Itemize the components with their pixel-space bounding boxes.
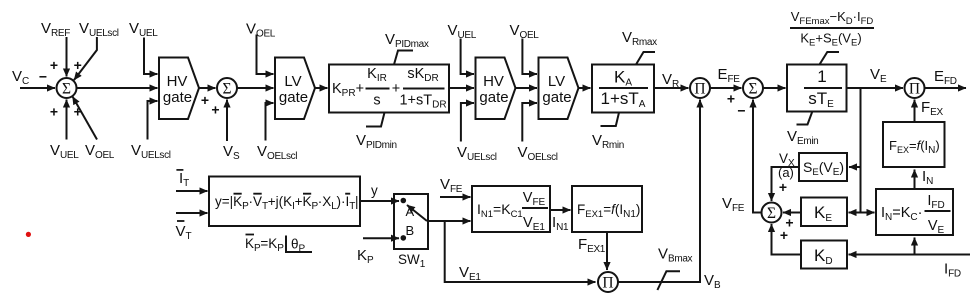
- svg-text:VUEL: VUEL: [448, 22, 477, 41]
- label V_OELscl below LV gate 1: [257, 143, 297, 162]
- wire LV gate 2 to KA block: [579, 87, 591, 89]
- label V_Rmin: [592, 132, 624, 151]
- FEX block: [883, 122, 945, 167]
- wire KE to S3: [783, 212, 801, 214]
- label V_OELscl below LV gate 2: [518, 144, 558, 163]
- label V_X: [779, 151, 795, 169]
- limit indicator V_Bmax slash: [657, 271, 680, 290]
- label V_UEL bottom: [50, 142, 79, 161]
- label V_UEL above HV gate 2: [448, 22, 477, 41]
- wire V_UEL to HV gate 2 top: [461, 39, 474, 75]
- wire HV gate 2 to LV gate 2: [516, 87, 538, 89]
- svg-text:Π: Π: [602, 275, 613, 292]
- wire V_OELscl to LV gate 2 bottom: [522, 103, 537, 142]
- label E_FD: [934, 68, 957, 87]
- svg-text:SW1: SW1: [398, 252, 426, 270]
- svg-text:VUEL: VUEL: [50, 142, 79, 161]
- switch SW1: [394, 194, 428, 249]
- sign plus VOEL: [74, 104, 82, 120]
- wire S4 to TE block: [763, 87, 786, 89]
- svg-text:VOELscl: VOELscl: [257, 143, 297, 162]
- limit indicator PID max: [394, 51, 413, 65]
- PID block: [329, 65, 449, 113]
- summing junction S4: [743, 78, 763, 98]
- svg-text:B: B: [406, 223, 415, 238]
- wire I_FD input: [849, 254, 971, 256]
- wire FEX block to P2: [914, 100, 916, 123]
- wire S2 to LV gate 1: [237, 87, 274, 89]
- svg-text:+: +: [201, 92, 209, 108]
- sign minus VFE: [737, 103, 745, 119]
- label V_T bar: [176, 221, 192, 242]
- label I_T bar: [176, 170, 189, 189]
- svg-text:HV: HV: [167, 73, 188, 90]
- label upper limit fraction of TE block: [790, 9, 874, 49]
- sign plus VREF: [50, 57, 58, 73]
- wire V_OEL to LV gate 2 top: [522, 39, 537, 75]
- wire KD to S3: [772, 224, 802, 255]
- sign plus KE: [785, 215, 793, 231]
- label F_EX: [921, 99, 943, 118]
- wire V_UEL to HV gate 1 top: [144, 38, 158, 75]
- label V_FE input: [440, 176, 463, 195]
- wire SE to S3: [772, 167, 800, 201]
- LV gate 1: [275, 58, 315, 120]
- limit indicator TE min: [797, 112, 813, 125]
- svg-text:FEX: FEX: [921, 99, 943, 118]
- svg-text:gate: gate: [479, 89, 508, 106]
- svg-text:gate: gate: [542, 89, 571, 106]
- summing junction S3: [762, 203, 782, 223]
- wire V_E1 to P3: [445, 221, 596, 282]
- IN block: [876, 189, 953, 236]
- label V_B: [704, 272, 721, 291]
- svg-text:VT: VT: [176, 223, 192, 242]
- sign plus VUELscl: [74, 57, 82, 73]
- svg-text:(a): (a): [778, 165, 794, 180]
- wire TE to P2: [847, 87, 904, 89]
- sign plus VX: [779, 179, 787, 195]
- label I_N1: [552, 214, 569, 233]
- svg-text:VE1: VE1: [459, 264, 481, 283]
- svg-text:VBmax: VBmax: [658, 246, 693, 265]
- red dot mark: [26, 232, 31, 237]
- wire V_FE to IN1 block: [440, 196, 471, 198]
- svg-text:IT: IT: [179, 170, 189, 189]
- summing junction S2: [217, 78, 237, 98]
- svg-text:VUELscl: VUELscl: [457, 144, 497, 163]
- svg-text:+: +: [74, 57, 82, 73]
- label y: [371, 183, 378, 198]
- wire V_UELscl to HV gate 2 bottom: [461, 103, 474, 142]
- label V_Emin: [787, 128, 818, 147]
- label V_FE feedback: [722, 195, 745, 214]
- svg-text:Σ: Σ: [62, 81, 71, 98]
- wire S1 to HV gate 1: [77, 87, 158, 89]
- svg-text:KP: KP: [357, 247, 374, 266]
- sign plus KD: [780, 227, 788, 243]
- label I_FD: [944, 261, 961, 280]
- label V_UEL above HV gate 1: [129, 20, 158, 39]
- label V_S: [223, 143, 240, 162]
- Y rectifier block: [209, 177, 360, 227]
- svg-text:LV: LV: [548, 73, 565, 90]
- svg-text:−: −: [737, 103, 745, 119]
- multiplier P2: [905, 78, 925, 98]
- svg-text:EFE: EFE: [718, 66, 741, 85]
- svg-text:−: −: [39, 69, 47, 85]
- svg-text:+: +: [50, 104, 58, 120]
- wire V_E to IN block: [861, 212, 875, 214]
- svg-text:VFE: VFE: [722, 195, 745, 214]
- svg-text:VOEL: VOEL: [510, 22, 540, 41]
- switch arm SW1: [407, 205, 427, 221]
- svg-text:IN: IN: [922, 168, 933, 187]
- svg-text:+: +: [74, 104, 82, 120]
- label V_PIDmax: [385, 31, 429, 50]
- label V_UELscl top: [79, 20, 119, 39]
- wire P2 to E_FD output: [925, 87, 967, 89]
- svg-text:VPIDmax: VPIDmax: [385, 31, 429, 50]
- label F_EX1: [578, 236, 606, 255]
- wire I_FD to IN block: [914, 238, 916, 255]
- limit indicator KA min: [601, 113, 620, 127]
- svg-text:IFD: IFD: [944, 261, 961, 280]
- KD block: [801, 241, 847, 269]
- wire I_T input: [176, 190, 208, 192]
- wire V_UELscl to HV gate 1 bottom: [148, 101, 158, 140]
- wire IN block to FEX block: [914, 170, 916, 190]
- KA block: [592, 65, 654, 113]
- svg-text:+: +: [211, 102, 219, 118]
- label V_PIDmin: [356, 132, 397, 151]
- wire IN1 to FEX1: [550, 209, 571, 211]
- svg-text:VRmin: VRmin: [592, 132, 624, 151]
- multiplier P3: [598, 272, 618, 292]
- wire HV gate 1 to S2: [199, 87, 216, 89]
- limit indicator TE max: [820, 52, 840, 65]
- wire P1 to S4: [710, 87, 742, 89]
- svg-text:Π: Π: [694, 81, 705, 98]
- FEX1 block: [572, 186, 642, 232]
- svg-text:gate: gate: [279, 89, 308, 106]
- svg-text:VEmin: VEmin: [787, 128, 818, 147]
- LV gate 2: [539, 58, 579, 120]
- KE block: [801, 198, 847, 227]
- label I_N: [922, 168, 933, 187]
- svg-text:VR: VR: [662, 71, 679, 90]
- svg-text:+: +: [780, 227, 788, 243]
- label KP phasor equation: [245, 235, 312, 255]
- limit indicator PID min: [366, 113, 385, 127]
- svg-text:gate: gate: [163, 89, 192, 106]
- wire V_OEL to LV gate 1 top: [257, 35, 274, 75]
- svg-text:VOEL: VOEL: [85, 142, 115, 161]
- svg-text:VFEmax−KD·IFD: VFEmax−KD·IFD: [791, 9, 874, 27]
- wire y output to SW1: [360, 200, 399, 202]
- wire V_UELscl diagonal input: [74, 37, 97, 80]
- svg-text:VREF: VREF: [41, 20, 70, 39]
- SE block: [799, 153, 847, 181]
- sign plus HV1 out: [201, 92, 209, 108]
- svg-text:VOELscl: VOELscl: [518, 144, 558, 163]
- wire S3 to S4 feedback V_FE: [753, 100, 762, 213]
- svg-text:LV: LV: [284, 73, 301, 90]
- label SW1: [398, 252, 426, 270]
- wire FEX1 to P3: [606, 232, 608, 270]
- summing junction S1: [57, 78, 77, 98]
- svg-text:VPIDmin: VPIDmin: [356, 132, 397, 151]
- svg-text:IN1: IN1: [552, 214, 569, 233]
- wire K_P to SW1: [363, 237, 399, 239]
- limit indicator KA max: [636, 52, 655, 65]
- wire KA to P1: [654, 87, 689, 89]
- sign plus EFE: [727, 91, 735, 107]
- svg-text:HV: HV: [483, 73, 504, 90]
- HV gate 2: [476, 58, 516, 120]
- label V_OEL bottom: [85, 142, 115, 161]
- svg-text:VE: VE: [870, 66, 887, 85]
- multiplier P1: [690, 78, 710, 98]
- label K_P input: [357, 247, 374, 266]
- label V_E1: [459, 264, 481, 283]
- label V_UELscl below HV gate 2: [457, 144, 497, 163]
- svg-text:VC: VC: [12, 68, 29, 87]
- wire V_E to KE block: [849, 212, 861, 214]
- label V_Rmax: [622, 29, 657, 48]
- svg-text:1: 1: [817, 67, 826, 86]
- wire V_UEL input: [66, 100, 68, 140]
- wire PID to HV gate 2: [449, 87, 474, 89]
- wire LV gate 1 to PID block: [315, 87, 328, 89]
- wire V_OEL diagonal input: [73, 97, 98, 140]
- svg-text:VUELscl: VUELscl: [79, 20, 119, 39]
- wire V_OELscl to LV gate 1 bottom: [266, 103, 274, 141]
- wire V_E feedback drop: [860, 88, 862, 213]
- svg-text:Π: Π: [909, 81, 920, 98]
- svg-text:KE+SE(VE): KE+SE(VE): [800, 31, 861, 49]
- wire P3 output V_B riser to P1: [618, 100, 700, 283]
- label V_OEL above LV gate 1: [246, 21, 276, 40]
- label V_Bmax: [658, 246, 693, 265]
- HV gate 1: [159, 58, 199, 120]
- svg-text:VS: VS: [223, 143, 240, 162]
- svg-text:Σ: Σ: [767, 205, 776, 222]
- svg-text:VUEL: VUEL: [129, 20, 158, 39]
- svg-text:EFD: EFD: [934, 68, 957, 87]
- TE block: [787, 65, 847, 112]
- wire V_T input: [176, 212, 208, 214]
- svg-text:VUELscl: VUELscl: [131, 142, 171, 161]
- svg-text:VFE: VFE: [440, 176, 463, 195]
- label V_C: [12, 68, 29, 87]
- svg-text:+: +: [50, 57, 58, 73]
- wire V_C input: [20, 87, 55, 89]
- svg-text:KP=KP: KP=KP: [245, 236, 284, 254]
- label V_REF: [41, 20, 70, 39]
- svg-text:VB: VB: [704, 272, 721, 291]
- sign minus VC: [39, 69, 47, 85]
- svg-text:+: +: [727, 91, 735, 107]
- svg-text:FEX1: FEX1: [578, 236, 606, 255]
- svg-text:s: s: [373, 93, 380, 109]
- IN1 block: [472, 186, 550, 233]
- svg-text:Σ: Σ: [748, 81, 757, 98]
- svg-text:y: y: [371, 183, 378, 198]
- svg-text:VOEL: VOEL: [246, 21, 276, 40]
- label V_R: [662, 71, 679, 90]
- wire V_REF input: [66, 37, 68, 77]
- label V_E: [870, 66, 887, 85]
- sign plus VS: [211, 102, 219, 118]
- label E_FE: [718, 66, 741, 85]
- svg-text:Σ: Σ: [222, 81, 231, 98]
- label V_OEL above LV gate 2: [510, 22, 540, 41]
- svg-text:VRmax: VRmax: [622, 29, 657, 48]
- wire SW1 output to IN1 block: [428, 220, 471, 222]
- wire V_S input: [226, 100, 228, 142]
- wire V_E to SE block: [849, 166, 861, 168]
- label note a: [778, 165, 794, 180]
- label V_UELscl below HV gate 1: [131, 142, 171, 161]
- sign plus VUEL: [50, 104, 58, 120]
- svg-text:+: +: [779, 179, 787, 195]
